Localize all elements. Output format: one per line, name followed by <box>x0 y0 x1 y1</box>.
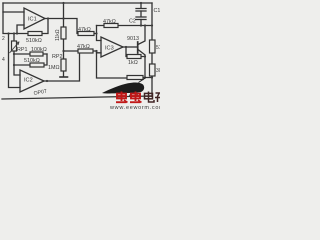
svg-text:4: 4 <box>2 57 5 63</box>
svg-text:IC2: IC2 <box>24 78 33 84</box>
svg-text:47kΩ: 47kΩ <box>103 19 116 25</box>
svg-text:1kΩ: 1kΩ <box>128 60 138 66</box>
svg-text:IC3: IC3 <box>105 46 114 52</box>
svg-text:2: 2 <box>2 36 5 42</box>
svg-text:11kΩ: 11kΩ <box>55 29 61 41</box>
svg-text:510kΩ: 510kΩ <box>24 58 40 64</box>
svg-text:30: 30 <box>156 68 160 74</box>
svg-text:C2: C2 <box>129 19 136 25</box>
svg-text:IC1: IC1 <box>28 17 37 23</box>
svg-text:47kΩ: 47kΩ <box>78 27 91 33</box>
svg-text:www.eeworm.com: www.eeworm.com <box>109 105 160 110</box>
svg-text:9013: 9013 <box>127 36 139 42</box>
svg-text:51: 51 <box>156 45 160 51</box>
svg-text:RP2: RP2 <box>52 54 63 60</box>
svg-text:RP1: RP1 <box>17 47 28 53</box>
svg-text:47kΩ: 47kΩ <box>77 44 90 50</box>
svg-text:100kΩ: 100kΩ <box>31 47 47 53</box>
svg-text:1MΩ: 1MΩ <box>48 65 60 71</box>
svg-text:510kΩ: 510kΩ <box>26 38 42 44</box>
svg-text:C1: C1 <box>154 8 161 14</box>
